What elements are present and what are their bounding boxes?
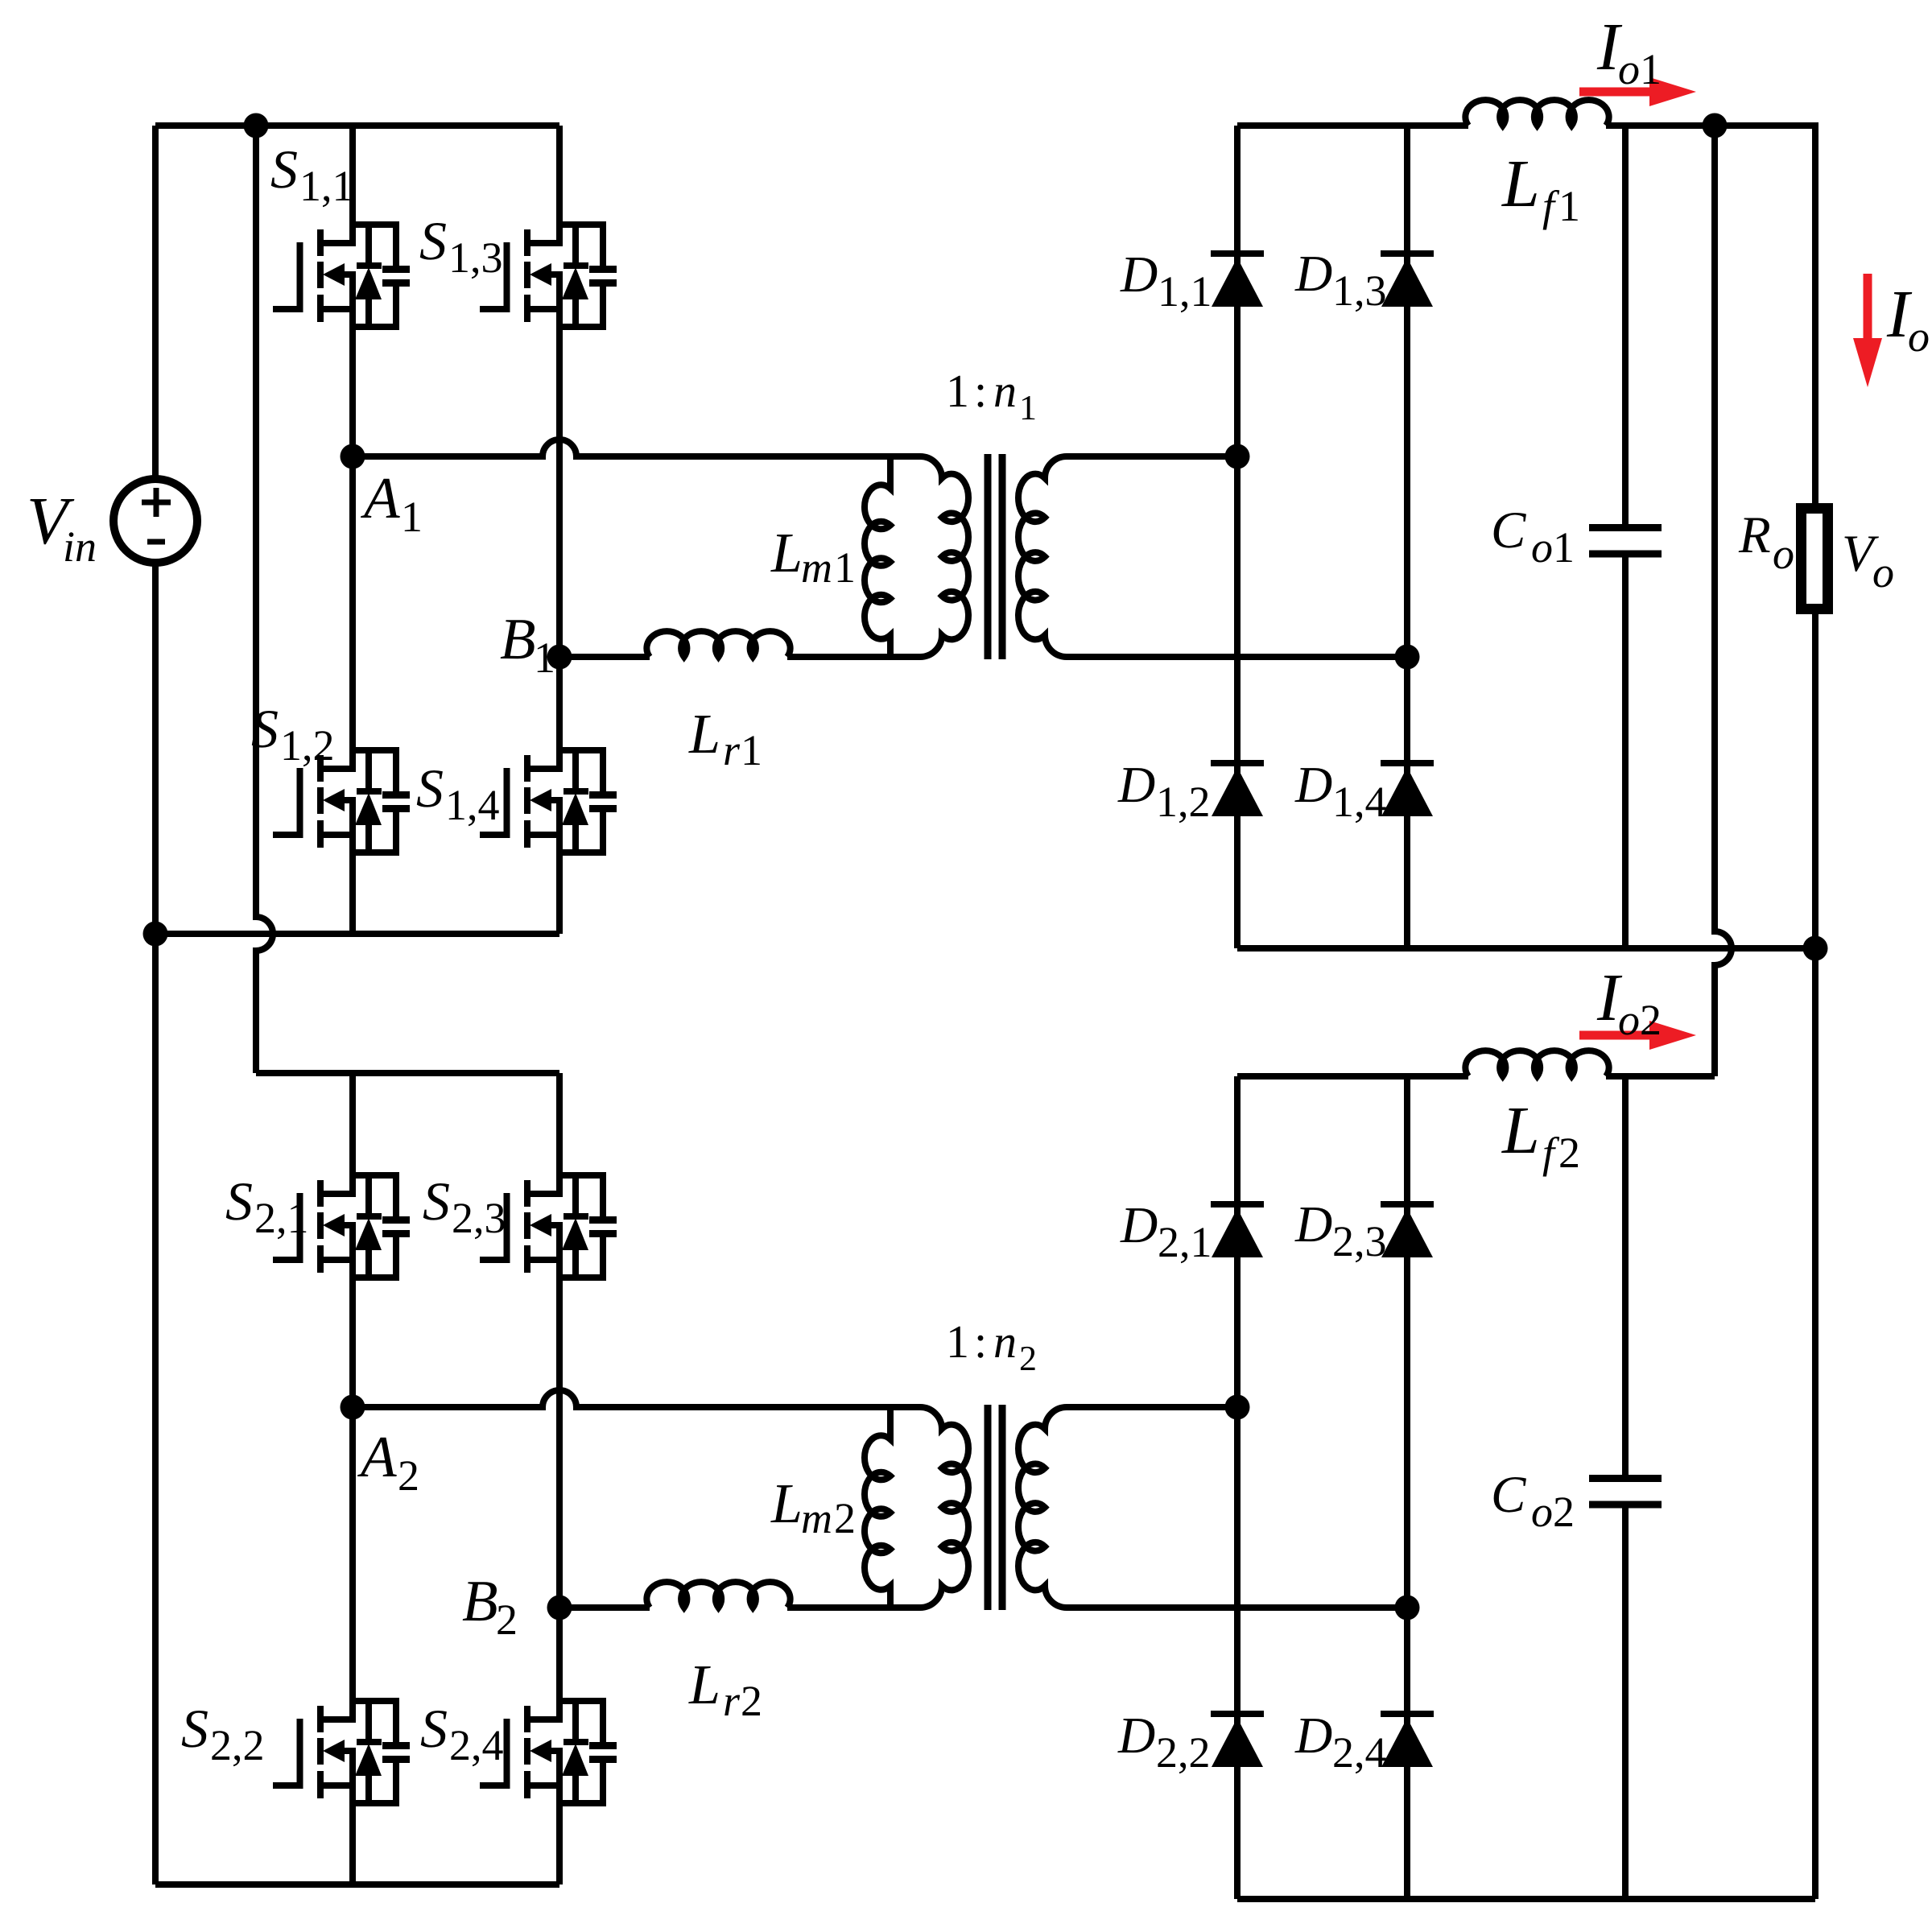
svg-text:2: 2	[496, 1596, 518, 1644]
diode D1,1	[1211, 254, 1264, 307]
voltage source Vin	[114, 479, 197, 563]
svg-text:B: B	[500, 606, 536, 671]
wire Co2 top	[1622, 1076, 1629, 1475]
svg-text:1,3: 1,3	[448, 233, 503, 282]
svg-text:o: o	[1531, 523, 1553, 572]
svg-text:R: R	[1738, 506, 1771, 564]
svg-text::: :	[974, 365, 987, 417]
svg-text:A: A	[361, 465, 400, 530]
svg-text:r: r	[723, 1677, 741, 1725]
svg-text:D: D	[1117, 756, 1155, 813]
transformer T1 secondary winding	[1018, 456, 1067, 657]
svg-text:1: 1	[1019, 388, 1037, 427]
wire S2,3 source to node B2	[556, 1222, 563, 1608]
wire transformer2 secondary top to rectifier	[1067, 1404, 1237, 1410]
wire S2,2 source to bottom rail	[349, 1748, 356, 1885]
svg-text:2,3: 2,3	[452, 1194, 506, 1242]
wire feed to bridge2 (hops over mid rail)	[256, 126, 273, 1073]
wire Co2 bottom	[1622, 1508, 1629, 1899]
svg-text:o: o	[1773, 530, 1794, 578]
svg-text:2,1: 2,1	[254, 1194, 309, 1242]
svg-text:2: 2	[834, 1494, 856, 1542]
wire S1,2 drain from A1	[349, 456, 356, 772]
wire S2,2 drain from A2	[349, 1407, 356, 1723]
wire Lf2 to output riser	[1606, 1073, 1715, 1080]
transformer T1 core	[985, 454, 992, 659]
svg-text:L: L	[770, 522, 803, 584]
svg-text:2,1: 2,1	[1158, 1218, 1212, 1266]
svg-text:S: S	[416, 758, 444, 819]
wire S2,3 drain leg	[556, 1073, 563, 1197]
svg-text:C: C	[1491, 502, 1526, 559]
transformer T1 primary winding	[920, 456, 968, 657]
wire Co1 top	[1622, 126, 1629, 524]
wire S1,4 source to bottom rail	[556, 797, 563, 934]
transistor S1,1	[273, 126, 410, 456]
node Vin- junction	[143, 922, 168, 947]
svg-text:1: 1	[834, 543, 856, 592]
wire S2,4 source to bottom rail	[556, 1748, 563, 1885]
current arrow Io2	[1579, 1031, 1652, 1040]
wire S1,3 drain leg	[556, 126, 563, 246]
svg-text:o: o	[1872, 548, 1894, 597]
wire rectifier2 left leg D2,1 D2,2	[1234, 1076, 1241, 1899]
wire output line from Lf2 up to output node (hops over rectifier1 bottom rail)	[1715, 126, 1732, 1076]
node secondary1 bottom junction	[1395, 645, 1420, 670]
wire Lr1 to transformer primary bottom	[787, 654, 920, 660]
svg-text:1,1: 1,1	[299, 162, 354, 210]
diode D2,1	[1211, 1204, 1264, 1257]
svg-text:m: m	[801, 1494, 832, 1542]
svg-text:2: 2	[1640, 996, 1662, 1044]
svg-text:2,2: 2,2	[1156, 1728, 1211, 1777]
wire bridge2 top rail	[256, 1070, 559, 1076]
svg-text:D: D	[1294, 1707, 1332, 1764]
transistor S1,3	[480, 126, 617, 327]
wire S2,1 drain leg	[349, 1073, 356, 1197]
svg-text:D: D	[1294, 1195, 1332, 1253]
inductor Lm1 magnetizing	[865, 456, 890, 657]
wire Lr2 to transformer 2 primary bottom	[787, 1604, 920, 1611]
svg-text:D: D	[1120, 246, 1158, 303]
wire transformer1 secondary bottom to rectifier	[1067, 654, 1407, 660]
node secondary1 top junction	[1225, 444, 1250, 469]
capacitor Co2	[1589, 1475, 1662, 1482]
svg-text:S: S	[181, 1698, 208, 1759]
svg-text:2: 2	[398, 1451, 419, 1500]
wire Ro bottom to output bottom node	[1812, 614, 1818, 1899]
svg-text:o: o	[1908, 312, 1930, 361]
svg-text:m: m	[801, 543, 832, 592]
svg-text:L: L	[770, 1473, 803, 1535]
transistor S1,2	[273, 456, 410, 934]
svg-text:S: S	[270, 138, 298, 200]
wire S1,4 drain from B1	[556, 657, 563, 772]
node A1	[341, 444, 365, 469]
transistor S2,1	[273, 1073, 410, 1407]
node secondary2 bottom junction	[1395, 1596, 1420, 1620]
wire bridge2 bottom rail	[155, 1881, 559, 1888]
wire node B1 to Lr1	[559, 654, 650, 660]
svg-text:D: D	[1294, 245, 1332, 302]
wire Lf1 to output node and down to load	[1606, 126, 1815, 508]
node B1	[547, 645, 572, 670]
wire rectifier1 right leg D1,3 D1,4	[1404, 126, 1410, 948]
inductor Lm2 magnetizing	[865, 1407, 890, 1608]
svg-text:L: L	[1501, 1093, 1540, 1168]
current arrow Io1	[1579, 88, 1652, 97]
svg-text:1: 1	[1553, 523, 1575, 572]
svg-text:S: S	[419, 210, 447, 271]
svg-text:in: in	[63, 522, 97, 571]
svg-text:1,1: 1,1	[1158, 267, 1212, 316]
wire Co1 bottom	[1622, 557, 1629, 948]
svg-text:C: C	[1491, 1466, 1526, 1524]
wire node A1 to transformer primary top (hops over B1 leg)	[353, 440, 920, 456]
svg-text:n: n	[993, 1315, 1017, 1368]
diode D1,3	[1381, 254, 1434, 307]
wire rectifier1 left leg D1,1 D1,2	[1234, 126, 1241, 948]
diode D2,2	[1211, 1714, 1264, 1767]
svg-text:2: 2	[1558, 1129, 1580, 1177]
transistor S2,2	[273, 1407, 410, 1885]
wire S2,1 source to node A2	[349, 1222, 356, 1407]
svg-text:D: D	[1294, 756, 1332, 813]
diode D2,3	[1381, 1204, 1434, 1257]
svg-text:1: 1	[401, 493, 423, 541]
wire left rail lower (Vin- down to bottom rail)	[152, 563, 159, 1885]
diode D2,4	[1381, 1714, 1434, 1767]
current arrow Io	[1864, 274, 1872, 341]
svg-text:1,4: 1,4	[1332, 778, 1387, 826]
transistor S2,3	[480, 1073, 617, 1278]
capacitor Co1	[1589, 524, 1662, 531]
svg-text:1,2: 1,2	[1156, 778, 1211, 826]
transistor S2,4	[480, 1608, 617, 1885]
svg-text:1: 1	[1558, 182, 1580, 230]
wire rectifier2 right leg D2,3 D2,4	[1404, 1076, 1410, 1899]
svg-text:L: L	[688, 704, 720, 766]
svg-text:S: S	[420, 1698, 448, 1759]
svg-text:o: o	[1618, 45, 1640, 93]
svg-text:1,2: 1,2	[280, 721, 335, 770]
wire S2,4 drain from B2	[556, 1608, 563, 1723]
svg-text:1: 1	[1640, 45, 1662, 93]
inductor Lf2	[1465, 1051, 1608, 1076]
svg-text:n: n	[993, 365, 1017, 417]
wire rectifier1 top rail to Lf1	[1237, 122, 1468, 129]
transformer T2 core	[985, 1405, 992, 1610]
wire S1,1 drain leg	[349, 126, 356, 246]
wire S1,1 source to node A1	[349, 271, 356, 456]
svg-text:2: 2	[1553, 1488, 1575, 1536]
diode D1,4	[1381, 763, 1434, 816]
inductor Lr1	[646, 631, 790, 657]
svg-text:L: L	[1501, 147, 1540, 221]
svg-text:2,2: 2,2	[210, 1721, 265, 1769]
node secondary2 top junction	[1225, 1395, 1250, 1420]
svg-text:D: D	[1117, 1707, 1155, 1764]
inductor Lf1	[1465, 100, 1608, 126]
svg-text:2: 2	[741, 1677, 762, 1725]
wire bridge1 bottom rail	[155, 931, 559, 937]
node output bottom	[1803, 936, 1828, 961]
wire transformer1 secondary top to rectifier	[1067, 453, 1237, 460]
wire node A2 to transformer 2 primary top (hops over B2 leg)	[353, 1390, 920, 1407]
svg-text:2,4: 2,4	[449, 1721, 504, 1769]
svg-text:r: r	[723, 726, 741, 774]
svg-text:o: o	[1618, 996, 1640, 1044]
wire rectifier2 bottom rail	[1237, 1896, 1815, 1902]
transistor S1,4	[480, 657, 617, 934]
svg-text:B: B	[462, 1568, 498, 1633]
svg-text:1: 1	[946, 1315, 969, 1368]
svg-text:2,4: 2,4	[1332, 1728, 1387, 1777]
wire S1,2 source to bottom rail	[349, 797, 356, 934]
wire top rail bridge1	[155, 122, 559, 129]
transformer T2 primary winding	[920, 1407, 968, 1608]
svg-text:A: A	[357, 1424, 397, 1489]
node output top	[1703, 114, 1728, 138]
svg-text::: :	[974, 1315, 987, 1368]
svg-text:1,3: 1,3	[1332, 266, 1387, 315]
wire S1,3 source to node B1	[556, 271, 563, 657]
wire rectifier2 top rail to Lf2	[1237, 1073, 1468, 1080]
svg-text:o: o	[1531, 1488, 1553, 1536]
wire rectifier1 bottom rail	[1237, 945, 1815, 952]
inductor Lr2	[646, 1582, 790, 1608]
node Vin+ junction	[244, 114, 269, 138]
svg-text:1: 1	[534, 634, 555, 682]
svg-text:1: 1	[946, 365, 969, 417]
svg-text:2: 2	[1019, 1339, 1037, 1378]
svg-text:S: S	[423, 1170, 450, 1232]
resistor Ro	[1802, 509, 1828, 609]
svg-text:2,3: 2,3	[1332, 1217, 1387, 1265]
svg-text:S: S	[251, 698, 279, 759]
svg-text:1,4: 1,4	[445, 781, 500, 829]
wire left rail upper (Vin+ to top rail)	[152, 126, 159, 479]
svg-text:L: L	[688, 1654, 720, 1716]
node B2	[547, 1596, 572, 1620]
node A2	[341, 1395, 365, 1420]
wire node B2 to Lr2	[559, 1604, 650, 1611]
svg-text:S: S	[225, 1170, 253, 1232]
transformer T2 secondary winding	[1018, 1407, 1067, 1608]
svg-text:1: 1	[741, 726, 762, 774]
wire transformer2 secondary bottom to rectifier	[1067, 1604, 1407, 1611]
svg-text:D: D	[1120, 1196, 1158, 1253]
diode D1,2	[1211, 763, 1264, 816]
